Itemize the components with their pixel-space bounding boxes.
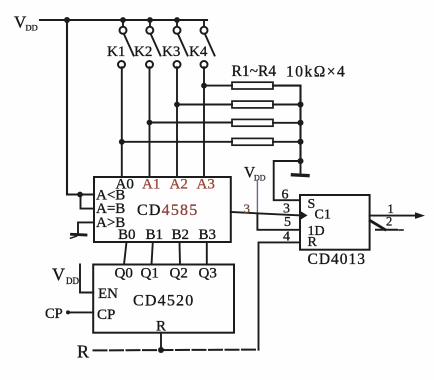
power V_DD (CD4520 EN) xyxy=(52,265,79,287)
wire: VDD to EN xyxy=(80,265,93,293)
power V_DD (mid, for 1D) xyxy=(244,165,266,183)
power V_DD (top left) xyxy=(14,13,38,33)
svg-text:A3: A3 xyxy=(197,177,215,193)
flip-flop CD4013 box xyxy=(300,195,370,250)
switch K3 xyxy=(174,20,188,68)
wire: VDD to 1D pin xyxy=(257,214,300,230)
wire: VDD lead (faint) xyxy=(256,180,258,214)
svg-text:CD4520: CD4520 xyxy=(133,293,194,310)
svg-text:R1~R4: R1~R4 xyxy=(232,63,277,80)
svg-text:R: R xyxy=(308,235,318,250)
svg-text:K4: K4 xyxy=(189,44,208,60)
svg-text:CD4585: CD4585 xyxy=(137,202,198,219)
node: K2/R3 row xyxy=(147,120,153,126)
wire: VDD vertical down to A&lt;B cascade input xyxy=(67,20,94,195)
arrowhead Q output xyxy=(415,212,425,219)
svg-text:5: 5 xyxy=(284,215,291,230)
svg-text:DD: DD xyxy=(254,174,266,183)
wire: Qbar output (pin 2) xyxy=(370,221,403,230)
node: rail stub K2 xyxy=(147,17,153,23)
svg-text:2: 2 xyxy=(386,215,392,229)
node: rail/R3 xyxy=(298,120,304,126)
wire: B3-Q3 xyxy=(206,242,208,265)
wire: R4 right xyxy=(273,141,301,143)
wire: R2 right xyxy=(273,104,301,106)
svg-text:B1: B1 xyxy=(146,227,164,243)
node: K3/R2 row xyxy=(174,102,180,108)
resistor R3 xyxy=(232,119,273,126)
wire: K1 row to R4 xyxy=(122,141,232,143)
wire: B2-Q2 xyxy=(179,242,182,265)
wire: ground stub xyxy=(300,161,302,173)
svg-text:A2: A2 xyxy=(170,177,188,193)
wire: CP lead xyxy=(66,310,93,314)
wire: B1-Q1 xyxy=(152,242,153,265)
comparator CD4585 box xyxy=(94,177,231,242)
svg-text:R: R xyxy=(156,319,166,335)
svg-text:3: 3 xyxy=(244,201,251,216)
svg-text:B0: B0 xyxy=(118,227,136,243)
svg-text:CP: CP xyxy=(45,306,63,322)
node: rail/R4 xyxy=(298,139,304,145)
svg-text:K1: K1 xyxy=(107,44,125,60)
clock triangle C1 xyxy=(300,211,308,220)
ground (resistor common) xyxy=(293,173,309,177)
svg-text:Q0: Q0 xyxy=(115,266,133,282)
switch K4 xyxy=(201,20,215,68)
wire: Q output (pin 1) xyxy=(370,215,418,217)
wire: K1 drop to A0 xyxy=(121,67,123,177)
svg-text:R: R xyxy=(77,342,89,362)
svg-text:DD: DD xyxy=(26,23,38,33)
wire: reset rail R xyxy=(94,349,259,352)
resistor R4 xyxy=(232,138,273,145)
switch K2 xyxy=(146,20,160,68)
svg-text:C1: C1 xyxy=(315,208,331,223)
svg-text:6: 6 xyxy=(282,188,289,203)
svg-text:B3: B3 xyxy=(199,227,217,243)
wire: K4 drop to A3 xyxy=(203,67,205,177)
wire: VDD top rail xyxy=(40,19,207,21)
svg-text:CD4013: CD4013 xyxy=(308,251,367,268)
node: K1/R4 row xyxy=(119,139,125,145)
svg-text:10kΩ×4: 10kΩ×4 xyxy=(286,64,346,81)
node: reset rail / CD4520 R xyxy=(158,347,164,353)
wire: tie to A=B pin xyxy=(81,195,95,209)
node: A&lt;B / A=B tie xyxy=(77,192,83,198)
svg-text:K2: K2 xyxy=(134,44,152,60)
wire: R1 right to common rail xyxy=(273,86,301,161)
svg-text:EN: EN xyxy=(98,286,118,302)
svg-text:B2: B2 xyxy=(172,227,190,243)
node: rail stub K1 xyxy=(120,17,126,23)
node: rail stub K3 xyxy=(174,17,180,23)
wire: B0-Q0 xyxy=(124,242,127,265)
wire: A&gt;B to ground xyxy=(78,222,94,232)
svg-text:CP: CP xyxy=(97,307,115,323)
switch K1 xyxy=(118,20,134,68)
node: K4/R1 row xyxy=(201,83,207,89)
node: rail to main vertical xyxy=(64,17,70,23)
counter CD4520 box xyxy=(93,265,234,333)
wire: R3 right xyxy=(273,122,301,124)
ground (A&gt;B input) xyxy=(71,234,87,238)
wire: rail tap to CD4013 S pin xyxy=(274,161,301,200)
wire: K3 row to R2 xyxy=(177,104,232,106)
resistor R1 xyxy=(232,82,273,89)
svg-text:DD: DD xyxy=(66,276,79,286)
wire: K2 drop to A1 xyxy=(149,67,151,177)
wire: K2 row to R3 xyxy=(150,122,233,124)
svg-text:Q1: Q1 xyxy=(141,266,159,282)
svg-text:K3: K3 xyxy=(162,44,180,60)
svg-text:Q2: Q2 xyxy=(170,266,188,282)
svg-text:V: V xyxy=(52,265,65,285)
node: rail/R2 xyxy=(298,102,304,108)
wire: A=B output to C1 clock xyxy=(231,212,300,215)
resistor R2 xyxy=(232,101,273,108)
svg-text:Q3: Q3 xyxy=(199,266,217,282)
label CD4585 xyxy=(137,202,198,219)
node: rail/ground tap xyxy=(298,158,304,164)
wire: K3 drop to A2 xyxy=(176,67,178,177)
wire: CD4520 R pin stub xyxy=(160,333,162,350)
svg-text:A1: A1 xyxy=(142,177,160,193)
wire: CD4013 R pin to reset rail xyxy=(259,242,301,349)
wire: K4 row to R1 xyxy=(204,85,232,87)
